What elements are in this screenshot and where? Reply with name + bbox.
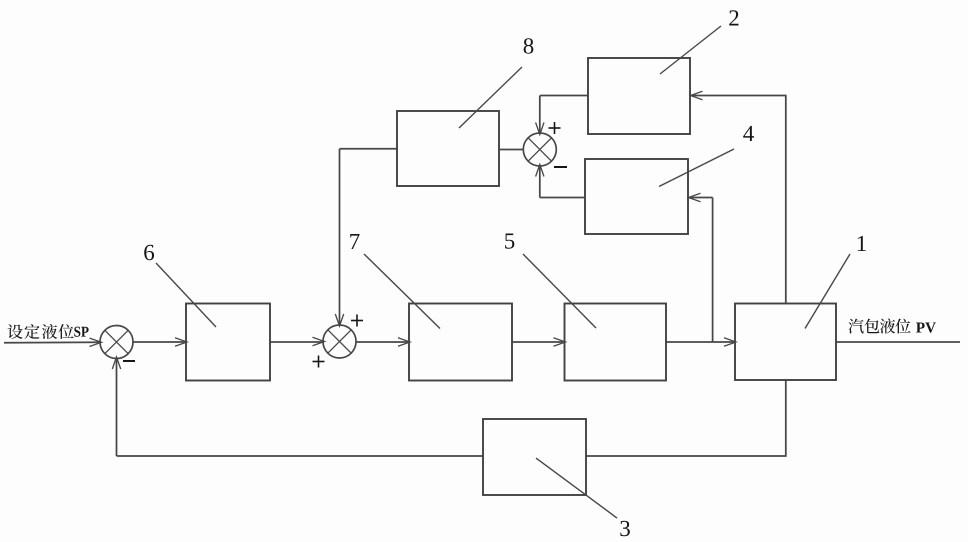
wire: summer2 output to block 7 [356,341,409,343]
label 7 [350,234,359,249]
wire: block 1 top up to y=96 [785,96,787,304]
wire: block 2 left to corner x=540 [540,95,588,97]
arrow into block 5 [554,338,566,346]
summing junction S2 (feedforward adder) [323,325,356,358]
wire: setpoint input line [4,341,101,344]
block 6 [186,304,270,381]
wire: y=96 run into block 2 right [690,95,787,97]
leader line for label 2 [660,26,721,74]
wire: block 8 left to corner x=339.5 [340,148,398,150]
block 3 [483,419,586,495]
wire: block 7 output to block 5 [512,341,565,343]
plus sign at summer2 top right [351,320,363,322]
arrow into summer1 bottom [112,357,120,369]
arrow into block 4 right [689,193,701,201]
leader line for label 3 [536,458,617,518]
block 5 [565,304,667,381]
wire: block 5 output to block 1 (node at x=712) [666,341,735,343]
leader line for label 4 [659,149,734,187]
wire: block 8 output to summer3 left [499,149,524,151]
block 2 [588,58,690,134]
arrow into summer3 bottom [536,165,544,177]
block 7 [409,304,512,381]
node label: 设定液位SP (setpoint) [8,324,23,339]
wire: bottom feedback run to block 3 [117,455,484,457]
node label: 汽包液位PV (drum level) [848,319,863,334]
summing junction S3 (difference of blocks 2 and 4) [523,133,556,166]
label 4 [743,126,754,141]
wire: down into summer2 top [339,149,341,326]
minus sign at summer3 bottom right [554,166,567,168]
wire: down into summer3 top [539,96,541,135]
arrow into block 7 [398,338,410,346]
arrow into block 2 right [691,91,703,99]
leader line for label 6 [156,263,216,327]
arrow into summer2 left [313,337,325,345]
summing junction S1 (setpoint comparator) [100,326,133,359]
wire: block 1 output line (drum level PV) [836,341,960,343]
wire: block 1 bottom down to feedback run [785,380,787,457]
block 1 [735,304,836,381]
label 1 [858,236,866,251]
leader line for label 8 [459,67,522,128]
arrow into summer2 top [335,314,343,326]
leader line for label 1 [805,254,850,329]
arrow into summer1 left [90,338,102,346]
block 4 [585,159,688,234]
wire: summer3 bottom down to y=197.5 [539,166,541,198]
wire: corner to block 4 left [540,197,585,199]
plus sign at summer3 top right [549,127,561,129]
arrow into block 1 [724,338,736,346]
label 5 [505,233,514,248]
label 8 [524,38,534,54]
label 3 [620,521,630,536]
minus sign at summer1 [123,360,135,362]
arrow into summer3 top [536,123,544,135]
label 6 [144,245,154,260]
label 2 [729,10,738,25]
wire: feedback drop from summer1 bottom [116,356,118,456]
wire: summer1 output to block 6 [133,341,186,343]
arrow into block 6 [175,338,187,346]
plus sign at summer2 bottom left [313,361,325,363]
wire: block 6 output to summer2 [270,341,324,343]
wire: x=712 down to main line node [712,198,714,343]
wire: block 3 right to corner below block 1 [586,455,786,457]
wire: block 4 right to corner x=712 [688,197,713,199]
leader line for label 5 [523,254,596,328]
leader line for label 7 [364,254,440,329]
block 8 [397,111,499,186]
